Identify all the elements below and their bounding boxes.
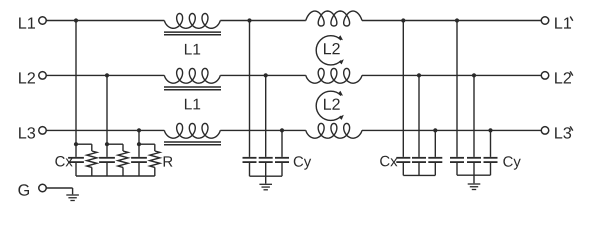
label "R" — [164, 156, 173, 166]
capacitor right Cy3 — [490, 130, 492, 157]
junction L2 to mid Cy2 — [264, 73, 268, 77]
resistor R1 — [91, 144, 93, 151]
junction L1 to right Cx1 — [401, 18, 405, 22]
label "L1" — [185, 44, 200, 55]
junction L2 to right Cx2 — [417, 73, 421, 77]
junction L3 to mid Cy3 — [280, 128, 284, 132]
capacitor mid Cy1 — [249, 21, 251, 157]
resistor R3 — [154, 144, 156, 151]
label "Cy" (middle) — [294, 156, 311, 169]
label "L2" — [324, 99, 340, 110]
label "L3`" — [555, 127, 571, 138]
label "L2" — [19, 72, 35, 83]
wire L1 choke L2 to terminal L1` — [362, 20, 541, 22]
wire L1 terminal to choke L1 — [46, 20, 164, 22]
junction L3 to right Cy3 — [488, 128, 492, 132]
terminal L2` — [541, 72, 549, 80]
inductor L2 winding 1 — [306, 11, 362, 26]
label "L3" — [19, 127, 35, 138]
terminal L3 — [39, 127, 47, 135]
choke L2 circulation arrow 1 — [316, 36, 341, 65]
wire L2 choke L2 to terminal L2` — [362, 74, 541, 76]
junction L3 to Cx/R branch — [137, 128, 141, 132]
junction L3 to right Cx3 — [433, 128, 437, 132]
inductor L1 winding 3 — [164, 123, 220, 138]
core L1 winding 3 — [164, 141, 221, 143]
label "L2" — [324, 43, 340, 54]
label "L1`" — [555, 17, 571, 28]
wire L3 terminal to choke L1 — [46, 129, 164, 131]
inductor L2 winding 3 — [306, 123, 362, 138]
capacitor right Cx3 — [434, 130, 436, 157]
junction L2 to Cx/R branch — [105, 73, 109, 77]
wire Cx/R top bar 2 — [107, 143, 123, 145]
capacitor mid Cy2 — [265, 75, 267, 156]
inductor L1 winding 2 — [164, 68, 220, 83]
capacitor Cx2 — [106, 144, 108, 157]
capacitor right Cx2 — [418, 75, 420, 156]
ground mid Cy — [259, 183, 272, 185]
label "Cx" — [55, 156, 72, 167]
label "Cy" (right) — [503, 156, 520, 169]
inductor L1 winding 1 — [164, 14, 220, 29]
wire Cx/R top bar 3 — [139, 143, 155, 145]
terminal L1 — [39, 17, 47, 25]
junction Cx/R bar 1 — [74, 142, 78, 146]
junction L1 to Cx/R branch — [74, 18, 78, 22]
label "Cx" (right) — [380, 156, 397, 167]
label "L1" — [19, 17, 35, 28]
wire L2 choke L1 to choke L2 — [220, 74, 305, 76]
capacitor right Cy1 — [456, 21, 458, 157]
label "G" — [18, 184, 29, 195]
inductor L2 winding 2 — [306, 68, 362, 83]
wire L3 choke L2 to terminal L3` — [362, 129, 541, 131]
capacitor right Cy2 — [473, 75, 475, 156]
choke L2 circulation arrow 2 — [316, 91, 341, 120]
capacitor right Cx1 — [402, 21, 404, 157]
wire L3 choke L1 to choke L2 — [220, 129, 305, 131]
label "L2`" — [555, 72, 571, 83]
wire right Cy bottom rail — [457, 174, 491, 176]
junction L1 to right Cy1 — [455, 18, 459, 22]
ground G — [66, 194, 79, 196]
terminal L3` — [541, 127, 549, 135]
wire L1 down to Cx/R bar — [75, 21, 77, 145]
wire right Cx bottom rail — [403, 174, 435, 176]
wire L3 down to Cx/R bar — [138, 130, 140, 144]
wire G — [46, 187, 72, 189]
ground right Cy — [468, 183, 481, 185]
wire mid Cy to ground — [265, 176, 267, 183]
junction Cx/R bar 3 — [137, 142, 141, 146]
core L1 winding 1 — [164, 31, 221, 33]
wire right Cy to ground — [473, 175, 475, 183]
terminal G — [39, 184, 47, 192]
junction L2 to right Cy2 — [472, 73, 476, 77]
wire Cx/R bottom rail — [76, 175, 155, 177]
core L1 winding 2 — [164, 86, 221, 88]
wire L2 down to Cx/R bar — [106, 75, 108, 144]
wire L1 choke L1 to choke L2 — [220, 20, 305, 22]
junction Cx/R bar 2 — [105, 142, 109, 146]
wire L2 terminal to choke L1 — [46, 74, 164, 76]
resistor R2 — [122, 144, 124, 151]
capacitor mid Cy3 — [281, 130, 283, 157]
junction L1 to mid Cy1 — [247, 18, 251, 22]
capacitor Cx1 — [75, 144, 77, 157]
wire Cx/R top bar 1 — [76, 143, 92, 145]
capacitor Cx3 — [138, 144, 140, 157]
wire mid Cy bottom rail — [250, 175, 283, 177]
label "L1" — [185, 99, 200, 110]
terminal L2 — [39, 72, 47, 80]
terminal L1` — [541, 17, 549, 25]
